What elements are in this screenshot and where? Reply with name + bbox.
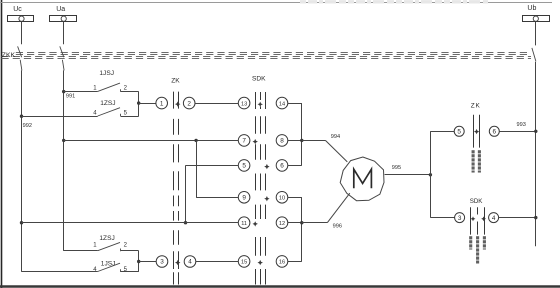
wire 6 to bus1 bbox=[288, 165, 302, 167]
svg-text:1JSJ: 1JSJ bbox=[101, 261, 116, 268]
wire row E from 992 bbox=[22, 222, 239, 224]
connector SDK right bar 3 bbox=[484, 207, 486, 234]
terminal 6 bbox=[276, 160, 288, 172]
svg-text:13: 13 bbox=[241, 101, 247, 107]
pin 2 terminal tick lower bbox=[120, 249, 122, 252]
wire 994 diagonal bbox=[325, 140, 347, 162]
svg-text:14: 14 bbox=[279, 101, 285, 107]
svg-text:ZK: ZK bbox=[171, 78, 180, 85]
wire branch C to E vertical bbox=[185, 165, 187, 222]
terminal 4 (right SDK) bbox=[489, 213, 499, 223]
terminal 13 bbox=[238, 97, 250, 109]
svg-text:2: 2 bbox=[187, 100, 191, 107]
pin 5 terminal tick bbox=[120, 114, 122, 117]
connector ZK bar left bbox=[173, 92, 175, 109]
svg-text:15: 15 bbox=[241, 260, 247, 266]
wire bus A to ZK pin1 bbox=[139, 103, 156, 105]
vertical annotation text under right SDK bar3 bbox=[483, 236, 486, 239]
vertical annotation text under right ZK bar1 bbox=[472, 150, 475, 153]
junction row B branch bbox=[194, 139, 197, 142]
wire row C horizontal bbox=[186, 165, 239, 167]
bus terminal Uc bbox=[8, 16, 34, 22]
connector SDK bar 1 bbox=[255, 92, 257, 109]
connector SDK bar 2 (pin bar) bbox=[260, 92, 262, 100]
connector ZK right contact mark bbox=[474, 129, 479, 134]
vertical annotation text under right SDK bar2 bbox=[476, 236, 479, 239]
junction Ub lower bbox=[534, 216, 537, 219]
svg-text:SDK: SDK bbox=[252, 76, 266, 83]
junction 991 upper bbox=[62, 90, 65, 93]
switch ZKK blade on Uc bbox=[18, 46, 22, 57]
wire 4 to Ub line bbox=[499, 217, 536, 219]
terminal 3 bbox=[156, 256, 168, 268]
vertical annotation text under right ZK bar2 bbox=[478, 150, 481, 153]
svg-text:992: 992 bbox=[23, 123, 32, 129]
svg-text:3: 3 bbox=[458, 215, 462, 222]
svg-text:995: 995 bbox=[392, 165, 401, 171]
svg-text:3: 3 bbox=[160, 259, 164, 266]
switch blade on Ub bbox=[532, 48, 536, 62]
wire 8 to bus1 bbox=[288, 140, 302, 142]
svg-text:ZK: ZK bbox=[471, 103, 481, 110]
terminal 10 bbox=[276, 192, 288, 204]
wire branch B to D vertical bbox=[196, 140, 198, 197]
wire 996 diagonal bbox=[327, 193, 350, 223]
wire bus B to ZK pin3 bbox=[139, 261, 156, 263]
bus B vertical bbox=[138, 251, 140, 272]
wire 6 to 993 bbox=[499, 131, 536, 133]
svg-text:996: 996 bbox=[333, 223, 342, 229]
wire 996 horizontal bbox=[302, 222, 328, 224]
svg-text:16: 16 bbox=[279, 260, 285, 266]
faint clipped text row at top edge bbox=[300, 0, 488, 3]
vertical annotation text under right SDK bar1 bbox=[469, 236, 472, 239]
junction bus B bbox=[137, 260, 140, 263]
connector SDK contact mark row B bbox=[253, 139, 258, 144]
svg-text:1ZSJ: 1ZSJ bbox=[100, 100, 115, 107]
junction 991 lower bbox=[62, 139, 65, 142]
contact 1ZSJ blade (lower) bbox=[98, 242, 120, 250]
connector ZK bar right bbox=[178, 92, 180, 109]
wire row F (4 to 15) bbox=[196, 261, 239, 263]
junction 992 lower bbox=[20, 221, 23, 224]
terminal 9 bbox=[238, 192, 250, 204]
junction 992 upper bbox=[20, 115, 23, 118]
border frame top bbox=[0, 2, 552, 4]
terminal 5 bbox=[238, 160, 250, 172]
wire 10 to bus2 bbox=[288, 197, 302, 199]
wire 992 to lower contact bbox=[22, 271, 98, 273]
contact 1ZSJ blade (upper) bbox=[98, 108, 120, 116]
svg-text:9: 9 bbox=[242, 195, 246, 202]
connector SDK right bar 2 bbox=[477, 207, 479, 214]
contact 1JSJ blade (lower) bbox=[98, 263, 120, 271]
svg-text:11: 11 bbox=[241, 221, 247, 227]
connector SDK contact mark row E bbox=[253, 221, 258, 226]
svg-text:Uc: Uc bbox=[13, 6, 22, 13]
svg-text:991: 991 bbox=[66, 94, 75, 100]
wire 994 horizontal bbox=[302, 140, 326, 142]
junction 995 bbox=[429, 173, 432, 176]
wire Ub drop bbox=[535, 22, 537, 46]
connector SDK bar 3 bbox=[265, 92, 267, 109]
wire contact to bus A bbox=[121, 91, 139, 93]
terminal 14 bbox=[276, 97, 288, 109]
wire Ub vertical bbox=[535, 62, 537, 246]
bus3 vertical bbox=[430, 131, 432, 217]
svg-text:8: 8 bbox=[280, 138, 284, 145]
connector ZK right bar left bbox=[473, 115, 475, 148]
junction bus A bbox=[137, 101, 140, 104]
pin 5 terminal tick lower bbox=[120, 269, 122, 272]
wire 991 vertical bbox=[63, 70, 65, 251]
pin 2 terminal tick bbox=[120, 89, 122, 92]
svg-text:Ub: Ub bbox=[527, 5, 536, 12]
wire bus3 to terminal 3 bbox=[430, 217, 454, 219]
wire 14 to bus1 bbox=[288, 103, 302, 105]
wire 991 to contact bbox=[64, 91, 98, 93]
connector ZK contact mark row2 bbox=[175, 260, 180, 265]
wire row D horizontal bbox=[196, 197, 238, 199]
contact 1JSJ blade (upper) bbox=[98, 83, 120, 91]
terminal 15 bbox=[238, 256, 250, 268]
svg-text:5: 5 bbox=[242, 163, 246, 170]
connector ZK contact mark row1 bbox=[175, 101, 180, 106]
connector SDK right contact mark A bbox=[471, 216, 476, 221]
wire contact to bus A lower bbox=[121, 116, 139, 118]
bus A vertical bbox=[138, 92, 140, 117]
connector SDK right contact mark B bbox=[481, 216, 486, 221]
junction bus1 994 bbox=[300, 139, 303, 142]
svg-text:6: 6 bbox=[280, 163, 284, 170]
wire lower contact to bus B bbox=[121, 250, 139, 252]
wire Ua drop bbox=[63, 21, 65, 44]
connector SDK contact mark row C bbox=[264, 164, 269, 169]
border frame left bbox=[1, 0, 3, 288]
svg-text:10: 10 bbox=[279, 196, 285, 202]
connector SDK right bar 1 bbox=[470, 207, 472, 234]
svg-text:5: 5 bbox=[457, 129, 461, 136]
wire 995 horizontal bbox=[385, 174, 431, 176]
bus2 vertical (10-12-16) bbox=[301, 197, 303, 261]
bus1 vertical (14-8-6) bbox=[301, 103, 303, 165]
junction 993 bbox=[534, 130, 537, 133]
terminal 5 (right ZK) bbox=[454, 126, 464, 136]
terminal 8 bbox=[276, 135, 288, 147]
terminal 1 bbox=[156, 97, 168, 109]
dashed bus line upper (double stroke) bbox=[16, 53, 531, 55]
motor M1 bbox=[340, 157, 384, 201]
svg-text:4: 4 bbox=[188, 259, 192, 266]
svg-text:1: 1 bbox=[160, 100, 164, 107]
terminal 3 (right SDK) bbox=[455, 213, 465, 223]
connector SDK contact mark row D bbox=[264, 196, 269, 201]
switch ZKK blade on Ua bbox=[60, 46, 64, 57]
wire row A (2 to 13) bbox=[195, 103, 238, 105]
svg-text:ZKK: ZKK bbox=[2, 52, 16, 59]
junction C-E on row E bbox=[184, 221, 187, 224]
terminal 11 bbox=[238, 217, 250, 229]
wire 992 to contact bbox=[22, 116, 98, 118]
svg-text:SDK: SDK bbox=[470, 198, 484, 205]
svg-text:Ua: Ua bbox=[56, 6, 65, 13]
wire 12 to bus2 bbox=[288, 222, 302, 224]
bus terminal Ua bbox=[50, 16, 77, 22]
terminal 6 (right ZK) bbox=[489, 126, 499, 136]
wire lower contact to bus B lower bbox=[121, 271, 139, 273]
wire 992 vertical bbox=[21, 70, 23, 271]
svg-text:993: 993 bbox=[517, 122, 526, 128]
terminal 4 bbox=[184, 256, 196, 268]
junction bus2 996 bbox=[300, 221, 303, 224]
terminal 16 bbox=[276, 256, 288, 268]
wire 991 to lower contact bbox=[64, 250, 98, 252]
svg-text:4: 4 bbox=[492, 215, 496, 222]
terminal 7 bbox=[238, 135, 250, 147]
terminal 2 bbox=[183, 97, 195, 109]
svg-text:12: 12 bbox=[279, 221, 285, 227]
svg-text:1JSJ: 1JSJ bbox=[99, 70, 114, 77]
connector ZK right bar right bbox=[479, 115, 481, 148]
wire 16 to bus2 bbox=[288, 261, 302, 263]
wire row B from 991 bbox=[64, 140, 239, 142]
svg-text:994: 994 bbox=[331, 134, 340, 140]
wire Uc drop bbox=[21, 21, 23, 44]
svg-text:6: 6 bbox=[493, 129, 497, 136]
bus terminal Ub bbox=[523, 16, 550, 22]
terminal 12 bbox=[276, 217, 288, 229]
dashed bus line lower (double stroke) bbox=[2, 57, 532, 59]
connector SDK contact mark row F bbox=[258, 260, 263, 265]
wire bus3 to terminal 5 bbox=[430, 131, 454, 133]
svg-text:7: 7 bbox=[242, 138, 246, 145]
connector SDK contact mark row A bbox=[258, 102, 263, 107]
svg-text:1ZSJ: 1ZSJ bbox=[99, 235, 114, 242]
border frame bottom bbox=[0, 285, 560, 287]
